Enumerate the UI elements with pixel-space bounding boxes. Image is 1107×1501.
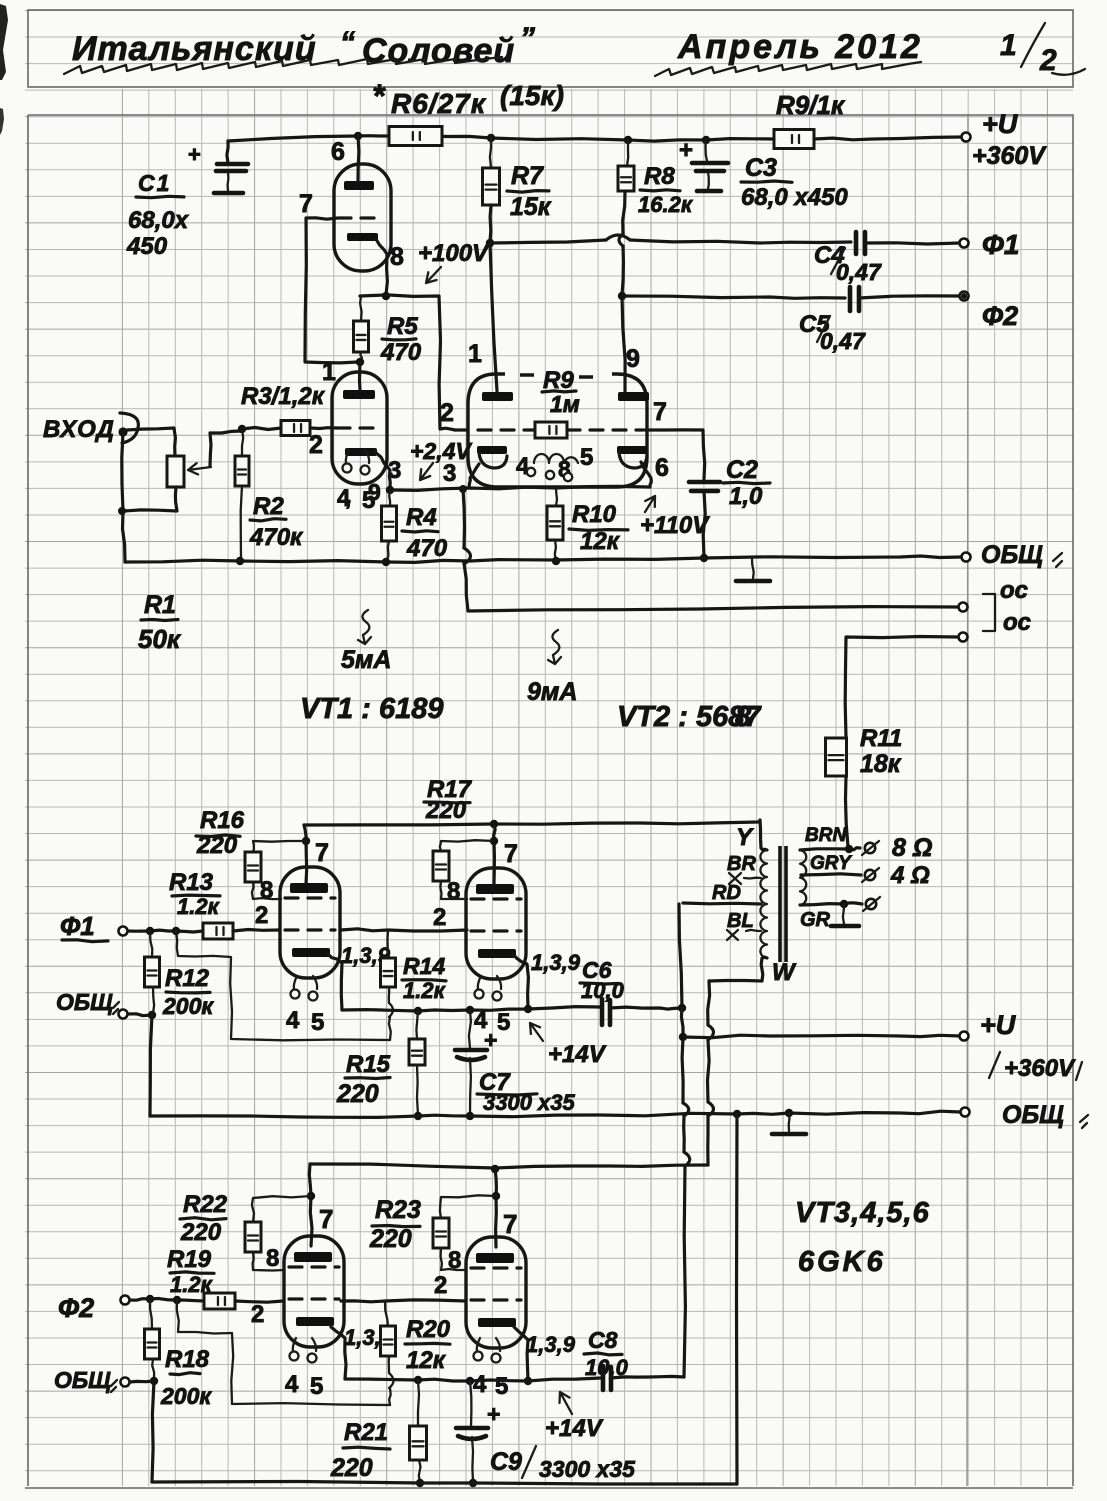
resistor R23 screen [440, 1195, 496, 1218]
terminal F1 input [119, 927, 128, 936]
terminal OBShch mid [961, 1108, 970, 1117]
wire R8 to VT2b plate with hop [619, 234, 623, 246]
svg-text:+14V: +14V [545, 1415, 604, 1442]
svg-text:VT3,4,5,6: VT3,4,5,6 [795, 1197, 930, 1229]
svg-text:ОБЩ: ОБЩ [56, 989, 113, 1015]
wire VT4 cathode [513, 954, 528, 1008]
svg-text:2: 2 [1039, 44, 1057, 77]
svg-text:C9: C9 [490, 1448, 522, 1476]
label 9mA [552, 630, 559, 655]
tube VT5 [284, 1236, 344, 1347]
svg-text:4: 4 [285, 1371, 299, 1398]
svg-text:9: 9 [368, 479, 381, 505]
svg-text:6GK6: 6GK6 [798, 1246, 886, 1278]
svg-text:ВХОД: ВХОД [43, 416, 115, 443]
wire +U rail [228, 136, 391, 141]
svg-text:4 Ω: 4 Ω [890, 862, 930, 889]
resistor R22 screen [252, 1196, 311, 1222]
resistor R4 [388, 490, 391, 506]
svg-text:0,47: 0,47 [820, 328, 866, 354]
wire input to pot [127, 428, 175, 456]
svg-text:Ф2: Ф2 [982, 301, 1018, 331]
capacitor C5 [850, 287, 859, 311]
terminal 8ohm [865, 843, 875, 853]
svg-text:R11: R11 [860, 725, 902, 752]
svg-text:9мА: 9мА [527, 678, 577, 706]
svg-text:+U: +U [980, 1010, 1017, 1040]
wire R20 path to F2 node [177, 1300, 390, 1405]
svg-text:10,0: 10,0 [581, 978, 625, 1003]
svg-text:+100V: +100V [418, 240, 490, 267]
grid line dashed VT2 [455, 428, 534, 431]
svg-text:8: 8 [735, 701, 752, 733]
svg-text:3: 3 [443, 460, 456, 487]
svg-text:ОБЩ: ОБЩ [54, 1367, 111, 1393]
svg-text:GR: GR [800, 909, 831, 931]
svg-text:1: 1 [1000, 29, 1017, 62]
wire VT5 cathode [331, 1327, 346, 1379]
terminal OBShch F2 [121, 1378, 130, 1387]
wire BRN secondary top [800, 848, 860, 850]
svg-text:5: 5 [580, 444, 593, 471]
svg-text:50к: 50к [138, 624, 182, 654]
tube VT3 [280, 867, 340, 978]
wire F1 line [490, 240, 606, 243]
resistor R21 [414, 1376, 422, 1384]
svg-text:220: 220 [425, 797, 467, 824]
svg-text:,: , [345, 485, 351, 510]
terminal +U mid [960, 1032, 969, 1041]
capacitor C3 [706, 140, 708, 161]
resistor R17 screen [440, 840, 494, 851]
node rail-R8 [624, 136, 632, 144]
svg-text:R15: R15 [346, 1051, 391, 1078]
tube VT1 lower triode [332, 372, 387, 484]
svg-text:1.2к: 1.2к [177, 894, 221, 919]
wire F2 line [622, 296, 845, 298]
wire OC upper [463, 489, 465, 548]
resistor R7 [490, 138, 491, 168]
svg-text:3300 х35: 3300 х35 [539, 1456, 636, 1482]
svg-text:220: 220 [180, 1219, 222, 1246]
node gnd C feeder [733, 1110, 741, 1118]
resistor R15 [414, 1007, 422, 1015]
wire VT5 plate lead [309, 1164, 312, 1246]
svg-text:R1: R1 [144, 591, 176, 619]
svg-text:R5: R5 [387, 313, 418, 340]
svg-text:5: 5 [310, 1373, 323, 1400]
wire cathode bus F2 [345, 1378, 601, 1381]
wire F2 gnd down [152, 1381, 154, 1482]
tap RD [683, 903, 761, 904]
tube VT4 [466, 868, 526, 979]
svg-text:8: 8 [390, 243, 404, 271]
wire ground bus top [125, 556, 961, 562]
capacitor C1 [227, 141, 228, 163]
svg-text:200к: 200к [160, 1383, 212, 1409]
wire F2 to grids [130, 1299, 204, 1302]
resistor R13 [203, 923, 233, 939]
wire R14 path to F1 node [176, 931, 390, 1040]
svg-text:ОБЩ: ОБЩ [981, 541, 1043, 569]
svg-text:Ф2: Ф2 [58, 1293, 94, 1323]
svg-text:ОБЩ: ОБЩ [1002, 1101, 1064, 1129]
resistor R12 [150, 931, 152, 957]
svg-text:1м: 1м [550, 391, 580, 417]
terminal OC 1 [959, 603, 968, 612]
svg-text:1,0: 1,0 [729, 483, 763, 510]
resistor R3 [281, 421, 310, 436]
svg-text:200к: 200к [162, 993, 214, 1019]
node rail-C3 [702, 136, 710, 144]
wire VT2 cathode bus [390, 486, 650, 490]
svg-text:R12: R12 [165, 965, 210, 992]
wire VT6 plate lead [495, 1169, 496, 1247]
svg-text:R23: R23 [375, 1196, 421, 1224]
svg-text:220: 220 [369, 1225, 412, 1253]
svg-text:R3/1,2к: R3/1,2к [241, 383, 326, 410]
svg-text:+: + [188, 142, 201, 167]
svg-text:+: + [484, 1027, 497, 1053]
heater VT4 [478, 976, 501, 989]
svg-text:C8: C8 [588, 1327, 618, 1353]
wire F1 to grids [128, 930, 203, 932]
terminal GR [866, 899, 876, 909]
svg-text:R14: R14 [403, 953, 445, 979]
svg-text:5: 5 [311, 1009, 324, 1036]
svg-text:1.2к: 1.2к [403, 978, 447, 1003]
svg-text:R7: R7 [511, 162, 544, 190]
svg-text:10,0: 10,0 [585, 1355, 629, 1380]
svg-text:450: 450 [126, 233, 168, 260]
wire RD feeder [679, 904, 682, 1008]
svg-text:1,3,9: 1,3,9 [531, 950, 581, 975]
svg-text:R4: R4 [406, 504, 437, 531]
resistor R14 [386, 930, 389, 958]
capacitor C2 [689, 482, 720, 491]
terminal F2 input [121, 1296, 130, 1305]
svg-text:C1: C1 [138, 170, 171, 196]
svg-text:7: 7 [315, 839, 329, 867]
svg-text:+: + [487, 1401, 500, 1427]
wire pot wiper to grid [210, 431, 242, 466]
resistor R9 grid box [535, 422, 567, 438]
transformer secondary coil [800, 850, 806, 905]
svg-text:220: 220 [336, 1080, 379, 1108]
svg-text:3300 х35: 3300 х35 [483, 1090, 576, 1115]
tube VT2 left plate [482, 392, 513, 401]
tube VT2 left cathode [477, 446, 507, 454]
resistor R2 [242, 429, 243, 456]
svg-text:+14V: +14V [548, 1041, 607, 1068]
svg-text:Апрель 2012: Апрель 2012 [677, 28, 923, 66]
svg-text:470: 470 [380, 339, 422, 366]
tap BR [744, 877, 761, 880]
potentiometer R1 [167, 456, 184, 487]
node VT2a anode [486, 239, 494, 247]
terminal +U [962, 133, 971, 142]
wire VT4 plate lead [494, 824, 495, 884]
wire VT2 right cathode lead [641, 462, 651, 487]
heater VT3 [294, 976, 317, 989]
svg-text:Ф1: Ф1 [60, 911, 95, 941]
svg-text:9: 9 [626, 345, 640, 373]
node grid R2 [238, 425, 246, 433]
svg-text:R18: R18 [165, 1346, 210, 1373]
wire W feeder [708, 981, 710, 1025]
svg-text:R20: R20 [406, 1316, 451, 1343]
wire grid bus VT4 [341, 929, 467, 931]
wire grid line VT1b [242, 428, 281, 430]
svg-text:2: 2 [440, 399, 454, 427]
wire VT1a grid to SRPP node [305, 218, 358, 363]
svg-text:R8: R8 [644, 163, 675, 190]
wire GRY tap [801, 874, 861, 875]
wire GR secondary bottom [800, 903, 862, 905]
wire gnd feeder to lower amp [735, 1114, 739, 1484]
svg-text:2: 2 [251, 1301, 264, 1328]
svg-text:7: 7 [504, 840, 518, 868]
ground symbol mid [785, 1109, 793, 1117]
resistor R11 [826, 738, 847, 776]
input jack [120, 413, 138, 443]
tube VT1 upper triode [334, 164, 391, 271]
wire R7 to VT2a plate [490, 243, 497, 391]
ground symbol GR [843, 904, 844, 924]
capacitor C9 [466, 1377, 474, 1385]
resistor R20 [385, 1301, 388, 1326]
wire SRPP output to VT2 grid [360, 295, 455, 430]
svg-text:R2: R2 [253, 493, 284, 520]
svg-text:5мА: 5мА [341, 646, 391, 674]
resistor R18 [150, 1299, 152, 1329]
svg-text:R16: R16 [200, 807, 245, 834]
svg-text:+: + [679, 137, 693, 164]
node rail-R7 [487, 134, 495, 142]
svg-text:8: 8 [266, 1245, 279, 1272]
terminal OC 2 [959, 633, 968, 642]
svg-text:+U: +U [982, 109, 1019, 139]
wire VT3 plate lead [304, 825, 307, 884]
svg-text:GRY: GRY [810, 853, 853, 874]
node rail-VT1a [354, 132, 362, 140]
svg-text:220: 220 [196, 832, 238, 859]
svg-text:7: 7 [319, 1204, 333, 1234]
svg-text:5: 5 [495, 1373, 508, 1400]
capacitor C6 [602, 999, 610, 1025]
svg-text:1,3,9: 1,3,9 [526, 1332, 576, 1357]
svg-text:“: “ [340, 26, 355, 59]
wire OBShch bus mid [150, 1111, 960, 1117]
svg-text:ос: ос [1000, 577, 1028, 604]
svg-text:RD: RD [712, 882, 741, 904]
svg-text:(15к): (15к) [500, 80, 564, 111]
svg-text:R21: R21 [344, 1419, 388, 1446]
svg-text:1: 1 [322, 358, 336, 386]
tube VT2 right cathode [617, 446, 647, 454]
wire OBShch bus bottom [152, 1482, 737, 1485]
svg-text:7: 7 [653, 398, 667, 426]
svg-text:2: 2 [433, 904, 446, 931]
capacitor C8 [603, 1366, 611, 1390]
tube VT2 right plate [618, 392, 649, 401]
terminal OBShch F1 [119, 1010, 128, 1019]
svg-text:2: 2 [255, 902, 268, 929]
wire VT6 cathode [514, 1327, 528, 1380]
svg-text:VT1 : 6189: VT1 : 6189 [300, 693, 443, 725]
svg-text:7: 7 [503, 1209, 517, 1239]
date underline [655, 62, 921, 76]
wire VT1b cathode to R4 [375, 452, 390, 489]
tube VT6 [466, 1237, 526, 1348]
wire VT2 left cathode lead [469, 464, 479, 487]
svg-text:220: 220 [330, 1454, 373, 1482]
wire OC lower [845, 637, 958, 738]
svg-text:0,47: 0,47 [836, 259, 882, 285]
wire cathode bus F1 [342, 1007, 600, 1011]
tube VT2 envelope [468, 374, 647, 487]
svg-text:8: 8 [260, 877, 273, 904]
svg-text:ос: ос [1003, 609, 1031, 636]
svg-text:6: 6 [655, 454, 669, 482]
transformer primary coil [760, 850, 767, 958]
svg-text:C3: C3 [745, 154, 777, 182]
wire pot bottom [124, 487, 177, 511]
heater VT5 [293, 1338, 316, 1351]
terminal 4ohm [865, 870, 875, 880]
heater VT6 [477, 1338, 500, 1351]
capacitor C4 [856, 232, 865, 254]
node R5 bottom [356, 358, 364, 366]
svg-text:16.2к: 16.2к [638, 192, 694, 217]
ground symbol top [752, 558, 754, 579]
svg-text:+2,4V: +2,4V [410, 438, 472, 464]
wire plate bus F2 [310, 1164, 708, 1168]
tap BL [746, 930, 761, 931]
svg-text:Y: Y [736, 824, 754, 851]
wire W primary bottom [709, 957, 767, 981]
resistor R5 [360, 296, 362, 321]
wire F1 gnd down [150, 1015, 152, 1116]
bracket OC [983, 594, 995, 631]
terminal F2 [960, 292, 969, 301]
svg-text:470к: 470к [249, 524, 304, 551]
svg-text:Соловей: Соловей [362, 32, 515, 70]
svg-text:12к: 12к [580, 528, 621, 555]
label 5mA [362, 610, 369, 635]
svg-text:Ф1: Ф1 [982, 229, 1019, 260]
svg-text:8 Ω: 8 Ω [892, 834, 932, 862]
wire plate bus F1 [304, 822, 758, 825]
resistor R16 screen [253, 841, 306, 852]
wire VT1a cathode [376, 239, 387, 295]
wire input ground [122, 432, 123, 511]
svg-text:4: 4 [473, 1371, 487, 1398]
svg-text:+360V: +360V [1004, 1055, 1076, 1082]
svg-text:15к: 15к [510, 193, 552, 221]
svg-text:”: ” [520, 22, 535, 55]
capacitor C7 [466, 1006, 474, 1014]
resistor R8 [627, 140, 628, 166]
title underline [64, 57, 502, 74]
svg-text:68,0х: 68,0х [128, 207, 190, 234]
wire +U line [683, 1035, 960, 1038]
svg-text:R19: R19 [167, 1246, 212, 1273]
svg-text:C2: C2 [726, 456, 758, 484]
resistor R19 box [204, 1293, 235, 1309]
svg-text:1: 1 [468, 340, 482, 368]
svg-text:18к: 18к [860, 750, 902, 778]
resistor R10 [556, 488, 557, 506]
svg-text:*: * [372, 78, 386, 114]
svg-text:6: 6 [331, 138, 345, 166]
svg-text:68,0 х450: 68,0 х450 [741, 184, 848, 211]
wire VT3 cathode [328, 954, 342, 1010]
terminal OBShch top [962, 553, 971, 562]
svg-text:+110V: +110V [640, 512, 710, 539]
svg-text:R6/27к: R6/27к [391, 88, 487, 119]
transformer core [780, 846, 786, 962]
svg-text:4: 4 [286, 1007, 300, 1034]
svg-text:+360V: +360V [972, 142, 1047, 170]
wire VT2 grid right to C2 [645, 430, 705, 479]
svg-text:R22: R22 [183, 1191, 228, 1218]
svg-text:BR: BR [727, 853, 756, 875]
svg-text:R10: R10 [572, 501, 617, 528]
terminal F1 [960, 239, 969, 248]
svg-text:R9/1к: R9/1к [776, 90, 846, 120]
svg-text:5: 5 [497, 1009, 510, 1036]
resistor R9 rail [774, 130, 814, 149]
wire grid bus VT6 [341, 1300, 466, 1302]
wire Y primary top [760, 820, 767, 850]
svg-text:BRN: BRN [805, 825, 847, 846]
svg-text:R13: R13 [169, 869, 214, 896]
svg-text:BL: BL [727, 910, 754, 932]
svg-text:W: W [772, 959, 797, 986]
resistor R6 [389, 127, 442, 146]
svg-text:2: 2 [434, 1272, 447, 1299]
svg-text:470: 470 [406, 535, 448, 562]
svg-text:7: 7 [299, 190, 313, 218]
svg-text:12к: 12к [406, 1347, 447, 1374]
heater VT1b [346, 450, 369, 463]
